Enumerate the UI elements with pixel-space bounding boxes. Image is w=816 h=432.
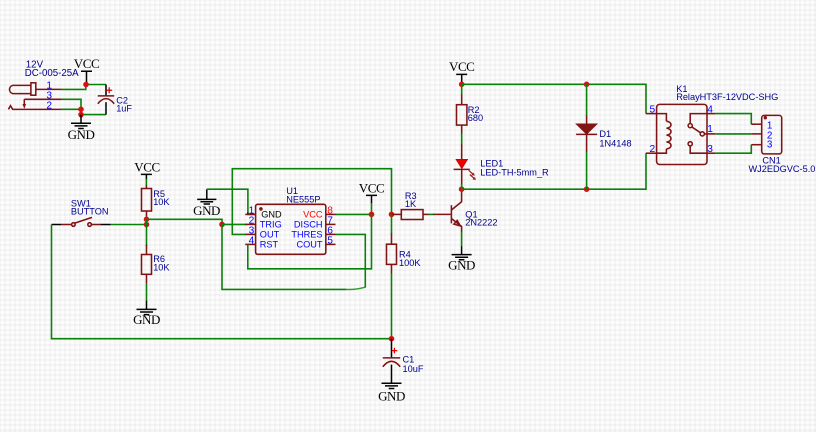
svg-text:DISCH: DISCH bbox=[294, 220, 323, 230]
diode D1 1N4148 bbox=[576, 84, 597, 189]
svg-text:1: 1 bbox=[707, 124, 713, 135]
power flag VCC (R5) bbox=[134, 160, 159, 180]
svg-text:1uF: 1uF bbox=[116, 103, 132, 113]
junction node C1 bbox=[389, 336, 395, 342]
wire relay pin4 to CN1 pin1 bbox=[716, 114, 752, 125]
svg-text:10uF: 10uF bbox=[403, 364, 424, 374]
svg-text:VCC: VCC bbox=[449, 59, 474, 74]
svg-text:GND: GND bbox=[378, 389, 405, 404]
wire relay pin3 to CN1 pin3 bbox=[716, 145, 752, 154]
svg-text:D1: D1 bbox=[599, 129, 611, 139]
op-amp timer U1 NE555P bbox=[245, 204, 335, 254]
junction node VCC top bbox=[459, 82, 465, 88]
connector CN1 WJ2EDGVC-5.0 bbox=[751, 115, 781, 153]
power flag VCC (R2) bbox=[449, 59, 474, 84]
svg-text:C1: C1 bbox=[403, 355, 415, 365]
wire jack pin2 bbox=[61, 108, 81, 110]
svg-text:5: 5 bbox=[650, 105, 656, 116]
svg-text:VCC: VCC bbox=[359, 180, 384, 195]
junction node jack A bbox=[78, 107, 84, 113]
wire node to GND rail bbox=[81, 109, 106, 114]
junction node jack B bbox=[78, 112, 84, 118]
ground GND (R6) bbox=[133, 301, 160, 328]
svg-text:VCC: VCC bbox=[74, 56, 99, 71]
ground GND (Q1) bbox=[448, 246, 475, 272]
svg-text:2: 2 bbox=[46, 101, 52, 112]
svg-text:10K: 10K bbox=[153, 197, 170, 207]
resistor R3 1K bbox=[392, 210, 434, 220]
svg-text:2N2222: 2N2222 bbox=[465, 218, 497, 228]
svg-text:LED-TH-5mm_R: LED-TH-5mm_R bbox=[480, 167, 549, 177]
power flag VCC (U1) bbox=[359, 180, 384, 214]
pin 3 (jack) bbox=[24, 98, 61, 100]
junction node D1 bottom bbox=[584, 186, 590, 192]
svg-text:5: 5 bbox=[327, 236, 333, 247]
wire jack pin3 down bbox=[61, 99, 81, 109]
svg-text:100K: 100K bbox=[399, 258, 421, 268]
capacitor C1 10uF polarized bbox=[383, 339, 400, 383]
svg-text:4: 4 bbox=[707, 105, 713, 116]
wire jack pin1 to VCC node bbox=[61, 85, 106, 90]
wire SW1 left loop to bottom rail bbox=[52, 225, 392, 339]
relay K1 coil and contacts bbox=[646, 104, 716, 164]
junction node VCC input bbox=[83, 82, 89, 88]
svg-text:COUT: COUT bbox=[296, 240, 322, 250]
resistor R5 10K bbox=[142, 179, 152, 219]
svg-text:DC-005-25A: DC-005-25A bbox=[25, 68, 79, 79]
svg-text:3: 3 bbox=[767, 139, 773, 150]
svg-text:VCC: VCC bbox=[134, 160, 159, 175]
svg-text:THRES: THRES bbox=[291, 230, 322, 240]
svg-text:VCC: VCC bbox=[303, 210, 323, 220]
ground GND (input) bbox=[68, 115, 95, 142]
capacitor C2 1uF polarized bbox=[98, 85, 114, 115]
svg-text:TRIG: TRIG bbox=[260, 220, 282, 230]
svg-text:BUTTON: BUTTON bbox=[71, 207, 109, 217]
svg-text:1K: 1K bbox=[405, 199, 417, 209]
wire relay pin1 to CN1 pin2 bbox=[716, 133, 752, 135]
wire TRIG net bbox=[147, 219, 223, 224]
connector J1 DC-005-25A barrel jack bbox=[10, 83, 36, 109]
svg-text:RelayHT3F-12VDC-SHG: RelayHT3F-12VDC-SHG bbox=[676, 92, 778, 102]
resistor R6 10K bbox=[142, 225, 152, 302]
ground GND (U1 pin1) bbox=[193, 189, 220, 218]
resistor R4 100K bbox=[387, 214, 397, 338]
pin 2 (jack) bbox=[8, 106, 61, 110]
junction node R5/TRIG bbox=[144, 217, 150, 223]
wire pin1 black segment bbox=[248, 213, 256, 215]
svg-text:GND: GND bbox=[68, 127, 95, 142]
svg-text:4: 4 bbox=[249, 236, 255, 247]
power flag VCC (input) bbox=[74, 56, 99, 84]
junction node D1 top bbox=[584, 82, 590, 88]
wire pin8 to VCC node bbox=[336, 213, 372, 215]
svg-text:3: 3 bbox=[707, 144, 713, 155]
resistor R2 680 bbox=[457, 84, 467, 159]
junction node TRIG bbox=[219, 222, 225, 228]
pin 1 (jack) bbox=[36, 88, 61, 90]
switch SW1 BUTTON bbox=[52, 217, 111, 226]
svg-text:1N4148: 1N4148 bbox=[599, 139, 631, 149]
svg-text:GND: GND bbox=[193, 203, 220, 218]
ground GND (C1) bbox=[378, 383, 405, 404]
svg-text:NE555P: NE555P bbox=[286, 194, 320, 204]
junction node collector/LED bbox=[459, 186, 465, 192]
junction node OUT/R3/R4 bbox=[389, 212, 395, 218]
svg-text:2: 2 bbox=[650, 144, 656, 155]
wire SW1 to node bbox=[111, 224, 147, 226]
junction node SW1/R6 bbox=[144, 222, 150, 228]
svg-text:10K: 10K bbox=[153, 262, 170, 272]
svg-text:680: 680 bbox=[468, 113, 483, 123]
wire node to node vertical bbox=[146, 219, 148, 224]
wire VCC rail to relay bbox=[462, 84, 646, 113]
transistor Q1 2N2222 bbox=[433, 189, 462, 246]
wire OUT rail bbox=[232, 169, 391, 235]
wire curved segment bbox=[346, 287, 365, 289]
junction node VCC/U1 bbox=[369, 212, 375, 218]
svg-text:GND: GND bbox=[133, 312, 160, 327]
diode LED1 bbox=[454, 159, 476, 189]
svg-text:WJ2EDGVC-5.0: WJ2EDGVC-5.0 bbox=[749, 164, 816, 174]
svg-text:OUT: OUT bbox=[260, 230, 280, 240]
wire RST loop bbox=[248, 214, 372, 268]
wire collector rail to relay bbox=[462, 153, 646, 189]
svg-text:GND: GND bbox=[448, 257, 475, 272]
wire THRES vertical bbox=[336, 234, 366, 287]
svg-text:RST: RST bbox=[260, 240, 279, 250]
wire TRIG to pin2 bbox=[222, 223, 247, 225]
svg-text:GND: GND bbox=[261, 210, 282, 220]
wire GND flag to pin1 bbox=[207, 189, 248, 213]
wire TRIG/THRES loop bbox=[222, 224, 346, 289]
